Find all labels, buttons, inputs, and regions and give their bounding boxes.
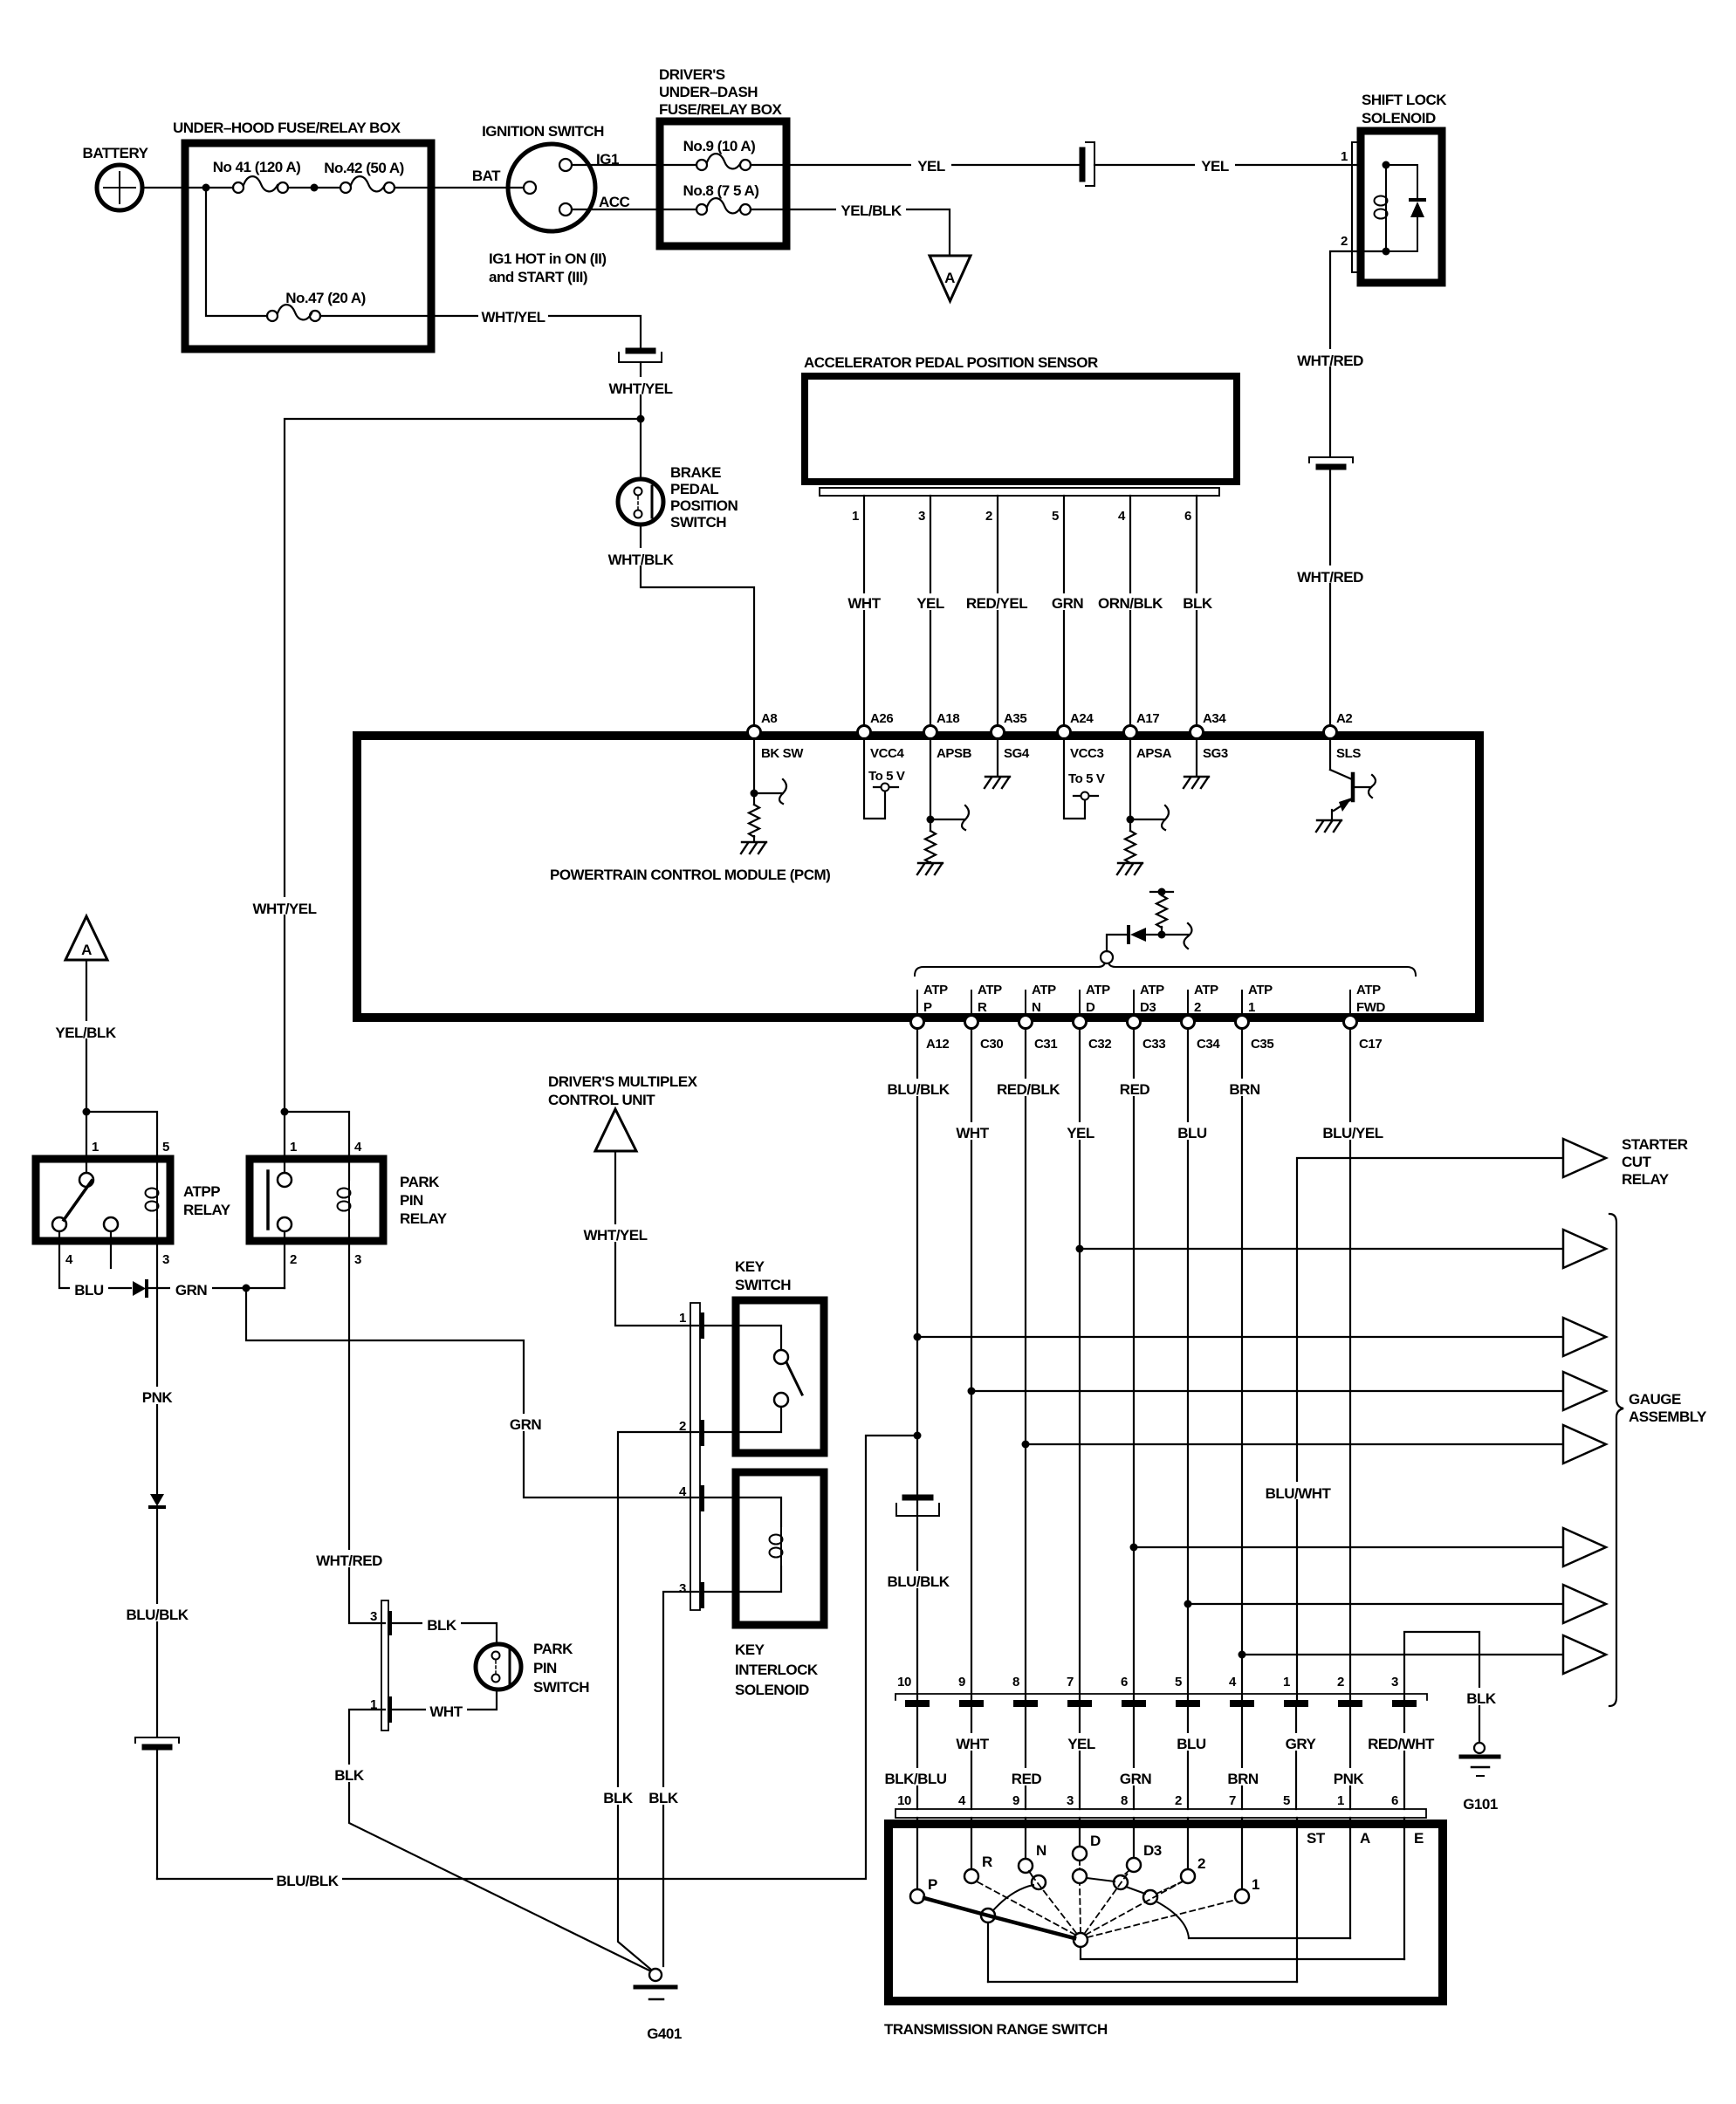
- svg-text:No 41 (120 A): No 41 (120 A): [213, 159, 301, 175]
- svg-text:C32: C32: [1088, 1037, 1111, 1052]
- svg-text:SG4: SG4: [1004, 746, 1030, 761]
- connector row bracket line: [895, 1694, 1427, 1700]
- svg-text:YEL/BLK: YEL/BLK: [55, 1025, 116, 1041]
- svg-text:4: 4: [958, 1793, 966, 1808]
- in-line connector (YEL wire): [1082, 142, 1094, 186]
- label WHT/BLK: [606, 548, 676, 565]
- svg-text:SWITCH: SWITCH: [670, 514, 726, 531]
- svg-text:ORN/BLK: ORN/BLK: [1098, 595, 1163, 612]
- ground (APSA): [1117, 863, 1142, 874]
- svg-text:1: 1: [1341, 149, 1348, 164]
- svg-text:GRN: GRN: [1120, 1771, 1152, 1787]
- svg-text:and START (III): and START (III): [489, 269, 587, 285]
- svg-text:KEY: KEY: [735, 1641, 765, 1658]
- range switch connector strip: [895, 1809, 1426, 1818]
- wire ACC to under-dash box: [572, 209, 660, 210]
- sensor pin wires to PCM: [864, 496, 1197, 724]
- svg-text:RELAY: RELAY: [1622, 1171, 1670, 1188]
- in-line connector C (WHT/YEL): [619, 351, 662, 362]
- label BLK: [330, 1765, 368, 1782]
- ground (APSB): [917, 863, 943, 874]
- svg-text:2: 2: [1194, 1000, 1201, 1015]
- svg-text:BLU/BLK: BLU/BLK: [887, 1081, 950, 1098]
- svg-text:A8: A8: [761, 711, 777, 726]
- wire GRN junction down to key interlock pin 4: [246, 1288, 698, 1497]
- svg-text:9: 9: [1012, 1793, 1019, 1808]
- wire label row: WHT YEL BLU BLU/YEL: [952, 1122, 993, 1140]
- svg-text:No.9 (10 A): No.9 (10 A): [683, 138, 756, 154]
- svg-text:3: 3: [162, 1252, 169, 1267]
- svg-text:ATP: ATP: [978, 983, 1002, 997]
- svg-text:A17: A17: [1136, 711, 1159, 726]
- gauge wire from C32 (YEL): [1080, 1248, 1563, 1250]
- ATPP switch contacts: [79, 1173, 93, 1187]
- label YEL: [1195, 155, 1235, 173]
- svg-text:VCC4: VCC4: [870, 746, 904, 761]
- wire labels row: BLK/BLU RED GRN BRN PNK: [881, 1768, 950, 1785]
- label YEL: [911, 155, 951, 173]
- rotor arm (thick) P to pivot: [924, 1898, 1074, 1938]
- svg-text:RED/WHT: RED/WHT: [1368, 1736, 1435, 1752]
- svg-text:SLS: SLS: [1336, 746, 1361, 761]
- label WHT/RED: [312, 1550, 387, 1567]
- in-line connector (BLU/BLK left): [135, 1737, 179, 1747]
- svg-text:3: 3: [918, 509, 925, 524]
- svg-text:D3: D3: [1143, 1842, 1162, 1859]
- svg-text:WHT/RED: WHT/RED: [316, 1552, 382, 1569]
- svg-text:VCC3: VCC3: [1070, 746, 1103, 761]
- svg-text:BAT: BAT: [472, 168, 501, 184]
- svg-text:D3: D3: [1140, 1000, 1156, 1015]
- svg-text:7: 7: [1229, 1793, 1236, 1808]
- svg-text:BLU/YEL: BLU/YEL: [1322, 1125, 1383, 1141]
- svg-text:WHT/YEL: WHT/YEL: [482, 309, 546, 326]
- svg-text:BLK: BLK: [603, 1790, 634, 1806]
- svg-text:6: 6: [1121, 1675, 1128, 1689]
- svg-text:BATTERY: BATTERY: [83, 145, 149, 161]
- svg-text:E: E: [1414, 1830, 1424, 1847]
- wire labels row: WHT YEL BLU GRY RED/WHT: [952, 1733, 993, 1751]
- svg-text:DRIVER'S: DRIVER'S: [659, 66, 725, 83]
- connector row dashes: [905, 1700, 1417, 1707]
- svg-text:5: 5: [1175, 1675, 1182, 1689]
- label BLU/BLK (bottom run): [273, 1870, 342, 1888]
- svg-text:3: 3: [354, 1252, 361, 1267]
- svg-text:PEDAL: PEDAL: [670, 481, 718, 497]
- label BLK: [644, 1787, 683, 1805]
- svg-text:C30: C30: [980, 1037, 1003, 1052]
- svg-text:2: 2: [1197, 1855, 1205, 1872]
- svg-text:A2: A2: [1336, 711, 1352, 726]
- top rail of pull-up: [1150, 891, 1173, 893]
- gauge wire from C34: [1188, 1603, 1563, 1605]
- svg-text:2: 2: [1175, 1793, 1182, 1808]
- svg-text:G101: G101: [1463, 1796, 1498, 1813]
- svg-text:ATPP: ATPP: [183, 1183, 220, 1200]
- label WHT/YEL: [580, 1224, 650, 1242]
- svg-text:3: 3: [679, 1581, 686, 1596]
- svg-text:YEL: YEL: [916, 595, 944, 612]
- D lower to mid contact to arc: [1087, 1878, 1189, 1938]
- svg-text:2: 2: [985, 509, 992, 524]
- wire label row: BLU/BLK RED/BLK RED BRN: [885, 1079, 951, 1096]
- wire YEL/BLK connector A to ATPP relay: [86, 960, 87, 1112]
- junction dot ATPP feed: [83, 1108, 91, 1116]
- svg-text:APSB: APSB: [937, 746, 972, 761]
- wire BLU from ATPP pin 4: [59, 1231, 131, 1288]
- A2 SLS internal transistor Q: [1330, 738, 1376, 819]
- wire park pin relay pin 2 to GRN junction: [284, 1231, 285, 1288]
- wire C30 ATP R down: [971, 1029, 972, 1700]
- svg-text:KEY: KEY: [735, 1258, 765, 1275]
- node circle on brace: [1101, 951, 1113, 963]
- label BLK (G101): [1461, 1688, 1500, 1705]
- junction dot: [202, 184, 210, 192]
- ATPP center contact with stub: [104, 1217, 118, 1231]
- svg-text:BLK: BLK: [648, 1790, 679, 1806]
- wire BLU/BLK diode to connector: [156, 1507, 158, 1737]
- transmission range switch box: [889, 1824, 1443, 2001]
- svg-text:3: 3: [1391, 1675, 1398, 1689]
- label WHT/RED: [1293, 349, 1367, 367]
- shift lock solenoid internals: coil: [1375, 188, 1388, 228]
- PCM top pin circles A8 A26 A18 A35 A24 A17 A34 A2: [748, 726, 761, 739]
- A18 APSB internal: dot bracket resistor ground: [930, 738, 969, 831]
- key switch connector strip: [690, 1303, 700, 1610]
- svg-text:A26: A26: [870, 711, 893, 726]
- fuse No.8 (7 5 A): [660, 198, 786, 215]
- svg-text:1: 1: [1248, 1000, 1255, 1015]
- svg-text:SWITCH: SWITCH: [735, 1277, 791, 1293]
- svg-text:BLK: BLK: [1466, 1690, 1497, 1707]
- svg-text:WHT: WHT: [956, 1736, 989, 1752]
- A line to pin 1: [1189, 1937, 1350, 1939]
- label BLU/BLK: [123, 1604, 192, 1621]
- gauge triangle 3: [1563, 1318, 1606, 1356]
- junction dot on WHT/YEL at relay: [281, 1108, 289, 1116]
- moving contact down to ST line: [987, 1922, 989, 1982]
- svg-text:4: 4: [354, 1140, 362, 1155]
- PCM bottom pin circles A12 C30 C31 C32 C33 C34 C35 C17: [911, 1016, 924, 1029]
- gauge triangle 5: [1563, 1425, 1606, 1463]
- ATP pin name labels: [923, 983, 1386, 1015]
- svg-text:GAUGE: GAUGE: [1629, 1391, 1681, 1408]
- svg-text:YEL: YEL: [1067, 1736, 1095, 1752]
- svg-text:PARK: PARK: [400, 1174, 440, 1190]
- svg-text:10: 10: [897, 1793, 911, 1808]
- ground (SLS transistor): [1316, 820, 1341, 832]
- label BLU/BLK (A12 lower): [884, 1571, 953, 1588]
- wire C32 ATP D down: [1079, 1029, 1081, 1700]
- svg-text:1: 1: [1283, 1675, 1290, 1689]
- range switch pin numbers (lower) 10 4 9 3 8 2 7 5 1 6: [897, 1793, 1398, 1808]
- svg-text:ASSEMBLY: ASSEMBLY: [1629, 1408, 1707, 1425]
- connector triangle A (to sheet point A): [930, 256, 971, 301]
- svg-text:RED/BLK: RED/BLK: [997, 1081, 1060, 1098]
- gauge wire from C31: [1026, 1443, 1563, 1445]
- svg-text:TRANSMISSION RANGE SWITCH: TRANSMISSION RANGE SWITCH: [884, 2021, 1108, 2038]
- svg-text:2: 2: [290, 1252, 297, 1267]
- svg-text:CONTROL UNIT: CONTROL UNIT: [548, 1092, 655, 1108]
- svg-text:CUT: CUT: [1622, 1154, 1652, 1170]
- svg-text:YEL: YEL: [917, 158, 945, 175]
- brake pedal position switch: [618, 479, 663, 524]
- svg-text:No.47 (20 A): No.47 (20 A): [285, 290, 366, 306]
- svg-text:A24: A24: [1070, 711, 1094, 726]
- A8 internal pulldown: wire dot bracket resistor ground: [754, 738, 786, 805]
- svg-text:GRN: GRN: [1052, 595, 1084, 612]
- svg-text:A18: A18: [937, 711, 959, 726]
- label WHT/RED: [1293, 565, 1367, 583]
- junction dot pin2: [1383, 248, 1390, 256]
- wire BLK key switch pin 2 to G401: [618, 1432, 698, 1970]
- internal brace over ATP pins: [915, 963, 1416, 976]
- svg-text:BLK/BLU: BLK/BLU: [884, 1771, 946, 1787]
- wire WHT/RED park pin relay pin 3 down: [349, 1220, 385, 1623]
- under-hood fuse/relay box: [185, 143, 431, 349]
- label WHT/YEL: [606, 377, 676, 394]
- fuse No.47 (20 A): [267, 305, 431, 321]
- wire YEL/BLK fuse8 to connector A: [786, 209, 950, 255]
- svg-text:BLU: BLU: [1177, 1125, 1207, 1141]
- svg-text:2: 2: [1337, 1675, 1344, 1689]
- svg-text:BLK: BLK: [334, 1767, 365, 1784]
- svg-text:1: 1: [679, 1311, 686, 1326]
- label GRN: [170, 1279, 212, 1297]
- shift lock solenoid box: [1361, 131, 1442, 283]
- wire connector to BLU/BLK bottom run: [156, 1751, 158, 1879]
- wire diode to resistor junction: [1146, 934, 1188, 935]
- powertrain control module (PCM) box: [357, 736, 1479, 1018]
- svg-text:GRN: GRN: [175, 1282, 208, 1299]
- label GRN (vertical run): [504, 1414, 546, 1431]
- svg-text:3: 3: [1067, 1793, 1074, 1808]
- key switch contacts: [704, 1326, 781, 1350]
- wire C34 ATP 2 down: [1187, 1029, 1189, 1700]
- gauge triangle 6: [1563, 1528, 1606, 1566]
- park pin switch: [476, 1644, 521, 1689]
- svg-text:APSA: APSA: [1136, 746, 1172, 761]
- inner contacts: [1032, 1875, 1046, 1889]
- label PNK: [136, 1387, 178, 1404]
- accelerator pedal position sensor box: [805, 376, 1237, 482]
- svg-text:ATP: ATP: [1194, 983, 1218, 997]
- svg-text:P: P: [928, 1876, 937, 1893]
- wire to ATPP pin 1 and pin 5: [86, 1112, 87, 1173]
- connector bracket at solenoid: [1352, 142, 1359, 272]
- svg-text:8: 8: [1012, 1675, 1019, 1689]
- svg-text:5: 5: [162, 1140, 169, 1155]
- svg-text:A: A: [944, 270, 955, 286]
- diode (ATP net, pointing left): [1127, 927, 1130, 942]
- wire YEL connector to solenoid pin 1: [1094, 164, 1362, 166]
- svg-text:C33: C33: [1142, 1037, 1165, 1052]
- svg-text:BRN: BRN: [1229, 1081, 1260, 1098]
- junction WHT/YEL: [637, 415, 645, 423]
- junction dot GRN: [243, 1285, 250, 1292]
- wire WHT park pin switch to pin 1: [392, 1689, 497, 1710]
- svg-text:PARK: PARK: [533, 1641, 573, 1657]
- wire WHT/RED connector to PCM A2: [1329, 470, 1331, 724]
- svg-text:R: R: [982, 1854, 992, 1870]
- svg-text:10: 10: [897, 1675, 911, 1689]
- svg-text:GRY: GRY: [1286, 1736, 1317, 1752]
- in-line connector (WHT/RED): [1309, 457, 1353, 467]
- wire node to diode: [1107, 935, 1126, 951]
- svg-text:ACC: ACC: [599, 194, 630, 210]
- svg-text:BLK: BLK: [427, 1617, 457, 1634]
- svg-text:FWD: FWD: [1356, 1000, 1386, 1015]
- svg-text:4: 4: [1229, 1675, 1237, 1689]
- fuse No 41 (120 A): [233, 176, 340, 193]
- svg-text:SOLENOID: SOLENOID: [735, 1682, 809, 1698]
- wire battery to under-hood box: [142, 187, 183, 188]
- wire GRN diode to junction: [147, 1287, 285, 1289]
- ST line to pin 5: [988, 1981, 1297, 1983]
- label WHT/YEL: [478, 305, 548, 323]
- gauge wire from C30: [971, 1390, 1563, 1392]
- svg-text:BRAKE: BRAKE: [670, 464, 721, 481]
- svg-text:ST: ST: [1307, 1830, 1326, 1847]
- svg-text:WHT/YEL: WHT/YEL: [584, 1227, 648, 1244]
- label YEL/BLK: [52, 1021, 120, 1038]
- wire PNK ATPP pin 3 down: [156, 1220, 158, 1494]
- svg-text:P: P: [923, 1000, 932, 1015]
- bracket into PCM logic: [1184, 923, 1192, 949]
- PCM bottom pin connector labels: [926, 1037, 1382, 1052]
- park pin relay box: [250, 1159, 383, 1241]
- svg-text:POSITION: POSITION: [670, 497, 738, 514]
- wire WHT/BLK brake switch to PCM A8: [641, 524, 754, 724]
- A24 VCC3 To 5 V loop: [1064, 738, 1098, 819]
- svg-text:INTERLOCK: INTERLOCK: [735, 1662, 819, 1678]
- svg-text:YEL: YEL: [1067, 1125, 1094, 1141]
- starter cut relay triangle: [1563, 1139, 1606, 1177]
- gauge wire from C33: [1134, 1546, 1563, 1548]
- key switch box: [736, 1300, 824, 1453]
- wire inside solenoid bottom: [1386, 250, 1417, 252]
- wires connector row to range switch strip: [917, 1707, 1404, 1809]
- ground G101: [1461, 1743, 1499, 1776]
- svg-text:SWITCH: SWITCH: [533, 1679, 589, 1696]
- svg-text:1: 1: [290, 1140, 297, 1155]
- svg-text:RED: RED: [1120, 1081, 1150, 1098]
- ignition switch: [508, 144, 595, 231]
- svg-text:D: D: [1090, 1833, 1101, 1849]
- svg-text:BLU: BLU: [1177, 1736, 1206, 1752]
- connector triangle (driver's multiplex control unit): [595, 1109, 636, 1151]
- wire range pin3 to G101: [1404, 1632, 1479, 1743]
- label WHT: [426, 1701, 467, 1718]
- svg-text:PNK: PNK: [1334, 1771, 1365, 1787]
- gauge wire from C35: [1242, 1654, 1563, 1655]
- dashed link D upper-lower, D3-mid, 2-inner: [1080, 1861, 1183, 1894]
- svg-text:6: 6: [1391, 1793, 1398, 1808]
- junction dot pin1: [1383, 161, 1390, 169]
- diode D (flyback): [1410, 165, 1424, 251]
- svg-text:WHT: WHT: [847, 595, 881, 612]
- svg-text:PIN: PIN: [400, 1192, 423, 1209]
- park pin relay contacts: [266, 1171, 270, 1229]
- contact labels P R N D D3 2 1: [928, 1833, 1259, 1893]
- diode (BLU/GRN wire): [133, 1281, 146, 1296]
- label BLU: [70, 1279, 108, 1297]
- svg-text:BLU/BLK: BLU/BLK: [276, 1873, 339, 1889]
- connector row pin numbers (upper) 10 9 8 7 6 5 4 1 2 3: [897, 1675, 1398, 1689]
- wire WHT/RED solenoid pin 2 down: [1330, 251, 1386, 456]
- svg-text:WHT/RED: WHT/RED: [1297, 569, 1363, 586]
- fuse No.9 (10 A): [660, 154, 786, 170]
- svg-text:IG1 HOT in ON (II): IG1 HOT in ON (II): [489, 250, 607, 267]
- svg-text:IGNITION SWITCH: IGNITION SWITCH: [482, 123, 604, 140]
- resistor (ATP pull-up): [1161, 892, 1163, 895]
- battery B1: [97, 165, 142, 210]
- svg-text:BLU: BLU: [74, 1282, 104, 1299]
- gauge triangle 2: [1563, 1230, 1606, 1268]
- wires strip into switch contacts: [917, 1818, 1404, 1982]
- wire WHT/YEL connector to junction: [640, 362, 642, 419]
- label BLK: [422, 1614, 461, 1632]
- svg-text:ATP: ATP: [923, 983, 948, 997]
- svg-text:ATP: ATP: [1032, 983, 1056, 997]
- diode (PNK wire, pointing down): [150, 1494, 164, 1506]
- svg-text:WHT: WHT: [429, 1703, 463, 1720]
- dashed rays pivot to R N D D3 2 1: [977, 1871, 1236, 1937]
- svg-text:ATP: ATP: [1086, 983, 1110, 997]
- svg-text:1: 1: [1337, 1793, 1344, 1808]
- svg-text:R: R: [978, 1000, 987, 1015]
- PCM top pin labels: [761, 711, 1352, 726]
- wire BLK pin 1 to ground G401: [349, 1710, 651, 1971]
- svg-text:5: 5: [1052, 509, 1059, 524]
- label YEL/BLK: [836, 200, 906, 217]
- gauge triangle 8: [1563, 1635, 1606, 1674]
- wire A12 ATP P (BLU/BLK) down to range switch pin 10: [916, 1029, 918, 1700]
- svg-text:A: A: [1360, 1830, 1370, 1847]
- label WHT/YEL (vertical run): [250, 897, 319, 915]
- wire BLK key interlock pin 3 to G401: [663, 1592, 698, 1966]
- contact circles P R N D D3 2 1: [910, 1889, 924, 1903]
- wire BLK pin 3 to park pin switch: [392, 1623, 497, 1644]
- svg-text:BRN: BRN: [1227, 1771, 1259, 1787]
- wire box to ignition switch BAT: [431, 187, 524, 188]
- svg-text:No.42 (50 A): No.42 (50 A): [324, 160, 404, 176]
- sensor connector strip: [820, 488, 1219, 496]
- wire branch down to fuse 47: [206, 188, 267, 316]
- svg-text:G401: G401: [647, 2025, 682, 2042]
- svg-text:RED/YEL: RED/YEL: [966, 595, 1027, 612]
- svg-text:C35: C35: [1251, 1037, 1273, 1052]
- gauge wire from A12: [917, 1336, 1563, 1338]
- svg-text:ATP: ATP: [1356, 983, 1381, 997]
- A17 APSA internal: dot bracket resistor ground: [1130, 738, 1169, 831]
- svg-text:7: 7: [1067, 1675, 1074, 1689]
- svg-text:9: 9: [958, 1675, 965, 1689]
- svg-text:C34: C34: [1197, 1037, 1220, 1052]
- svg-text:WHT/RED: WHT/RED: [1297, 353, 1363, 369]
- svg-text:SHIFT LOCK: SHIFT LOCK: [1362, 92, 1447, 108]
- svg-text:BLU/BLK: BLU/BLK: [887, 1573, 950, 1590]
- ATPP relay coil: [146, 1180, 159, 1220]
- svg-text:No.8 (7 5 A): No.8 (7 5 A): [683, 182, 759, 199]
- svg-text:C31: C31: [1034, 1037, 1057, 1052]
- svg-text:YEL/BLK: YEL/BLK: [841, 202, 902, 219]
- svg-text:1: 1: [1252, 1876, 1259, 1893]
- wire YEL fuse9 to shift lock solenoid: [786, 164, 1079, 166]
- moving contact arc to N: [993, 1871, 1033, 1910]
- svg-text:GRN: GRN: [510, 1416, 542, 1433]
- svg-text:POWERTRAIN CONTROL MODULE (PCM: POWERTRAIN CONTROL MODULE (PCM): [550, 867, 830, 883]
